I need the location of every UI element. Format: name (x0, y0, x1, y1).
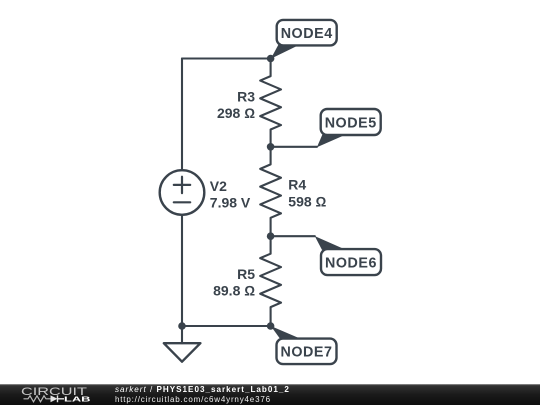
label R4 value (288, 177, 326, 210)
V2 minus sign (174, 201, 190, 203)
ground stub wire (181, 326, 183, 343)
svg-text:V2: V2 (210, 178, 227, 194)
logo resistor squiggle (24, 396, 51, 402)
node NODE5 flag (317, 109, 381, 147)
resistor R4 zigzag (260, 147, 281, 236)
node NODE4 flag (271, 20, 337, 59)
svg-text:7.98 V: 7.98 V (210, 195, 251, 211)
svg-text:R5: R5 (237, 266, 255, 282)
node junction dot NODE5 (267, 143, 275, 151)
wire NODE6 stub (271, 235, 315, 237)
footer bar (0, 384, 540, 405)
wire top horizontal NODE4 rail (182, 57, 271, 59)
svg-text:NODE5: NODE5 (325, 115, 377, 131)
voltage source V2 circle (160, 170, 205, 215)
wire left rail lower (181, 215, 183, 326)
svg-text:598 Ω: 598 Ω (288, 193, 326, 209)
svg-text:LAB: LAB (64, 394, 91, 403)
svg-text:R4: R4 (288, 177, 306, 193)
wire left rail upper (181, 59, 183, 171)
node junction dot NODE7 (267, 322, 275, 330)
label V2 value (210, 178, 251, 211)
wire NODE5 stub (271, 146, 317, 148)
svg-text:89.8 Ω: 89.8 Ω (213, 283, 255, 299)
svg-text:sarkert / PHYS1E03_sarkert_Lab: sarkert / PHYS1E03_sarkert_Lab01_2 (115, 385, 290, 394)
wire bottom horizontal (182, 325, 271, 327)
node NODE6 flag (315, 236, 381, 275)
label R3 value (217, 88, 255, 121)
node A junction dot top (NODE4) (267, 55, 275, 63)
node NODE7 flag (271, 326, 337, 364)
svg-text:http://circuitlab.com/c6w4yrny: http://circuitlab.com/c6w4yrny4e376 (115, 395, 271, 404)
logo diode symbol (51, 395, 58, 402)
label R5 value (213, 266, 255, 299)
svg-text:298 Ω: 298 Ω (217, 105, 255, 121)
svg-text:NODE7: NODE7 (280, 345, 332, 361)
node junction dot ground rail (178, 322, 186, 330)
node junction dot NODE6 (267, 232, 275, 240)
resistor R5 zigzag (260, 236, 281, 326)
svg-text:NODE4: NODE4 (281, 26, 333, 42)
V2 plus sign (174, 177, 190, 193)
svg-text:R3: R3 (237, 88, 255, 104)
ground triangle (164, 343, 201, 362)
resistor R3 zigzag (260, 59, 281, 147)
svg-text:NODE6: NODE6 (325, 255, 377, 271)
